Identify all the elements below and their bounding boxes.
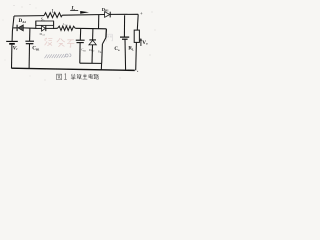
wire left vertical from top rail to source xyxy=(12,16,14,41)
caption char 效 xyxy=(77,74,82,79)
caption char 等 xyxy=(71,74,76,80)
wire capacitor C_o tap from top rail xyxy=(123,15,125,36)
capacitor C_B1 bottom plate xyxy=(77,42,84,44)
wire left node to diode D_A2 xyxy=(13,27,17,29)
svg-text:DA2: DA2 xyxy=(19,18,27,24)
caption char 图 xyxy=(57,74,62,79)
wire capacitor C_A1 tap xyxy=(29,28,31,41)
wire junction drop from top rail to node B xyxy=(98,15,100,29)
battery V_i short plate xyxy=(9,43,15,45)
watermark faint gray hanzi right xyxy=(107,34,113,41)
watermark gray script "www" squiggle xyxy=(45,54,71,58)
svg-text:Vi: Vi xyxy=(13,45,18,51)
wire top rail left segment xyxy=(14,15,44,17)
wire cell A to inductor L_B1 xyxy=(54,27,58,29)
wire C_o to bottom rail xyxy=(124,39,127,70)
wire bottom rail xyxy=(12,68,135,70)
inductor L xyxy=(44,13,62,18)
svg-text:LB1: LB1 xyxy=(63,22,69,27)
diode D_A1 triangle xyxy=(42,26,46,31)
svg-text:SA: SA xyxy=(41,18,45,23)
svg-text:CB1: CB1 xyxy=(32,46,40,52)
diode D_B2 triangle xyxy=(89,40,96,45)
wire L_B1 to node B xyxy=(75,27,106,30)
scan noise speckles xyxy=(3,4,156,80)
ink dot after bottom rail xyxy=(137,71,138,72)
Io underline xyxy=(70,10,78,12)
diode D_A1 cathode bar xyxy=(45,26,47,31)
wire node B down to switch S_B xyxy=(105,29,108,38)
wire right edge down to R_L xyxy=(136,14,139,30)
wire battery to bottom rail xyxy=(11,45,13,69)
caption char 路 xyxy=(94,74,99,79)
wire C_B1 to cell B bus xyxy=(79,43,81,64)
inductor L_B1 xyxy=(58,26,76,30)
capacitor C_B1 top plate xyxy=(76,39,85,41)
watermark red hanzi character 3 xyxy=(67,40,74,48)
wire cell B bus to bottom rail xyxy=(100,63,102,70)
wire C_A1 to bottom rail xyxy=(28,44,30,69)
node bar cell A left xyxy=(35,21,37,29)
capacitor C_o bottom plate xyxy=(122,38,128,40)
switch S_B blade xyxy=(103,38,106,44)
svg-text:SB: SB xyxy=(98,49,102,54)
diode D_B1 cathode bar xyxy=(109,12,111,18)
svg-text:Co: Co xyxy=(114,47,120,52)
capacitor C_A1 bottom plate xyxy=(26,43,34,45)
wire cell A lower right xyxy=(46,27,54,29)
wire cell B bus xyxy=(80,62,102,64)
diode D_A2 cathode bar xyxy=(16,25,18,31)
caption char 主 xyxy=(83,74,88,79)
svg-text:L: L xyxy=(52,9,55,14)
wire diode D_B2 tap xyxy=(92,29,94,40)
V_o arrow head xyxy=(140,38,142,41)
svg-text:DB2: DB2 xyxy=(89,48,95,53)
caption char 电 xyxy=(89,74,93,78)
diode D_B1 triangle xyxy=(105,12,110,18)
switch S_A box xyxy=(36,21,54,25)
wire D_B2 to cell B bus xyxy=(91,45,94,64)
node bar cell A right xyxy=(53,21,55,29)
resistor R_L xyxy=(134,30,139,42)
watermark red hanzi character 2 xyxy=(57,38,65,46)
wire R_L to bottom rail xyxy=(135,42,138,70)
wire cell A lower left xyxy=(36,27,42,29)
current direction arrow on top rail xyxy=(80,11,89,14)
wire top rail right segment xyxy=(110,13,138,15)
svg-text:DA1: DA1 xyxy=(40,32,46,37)
svg-text:+: + xyxy=(140,11,143,16)
svg-text:RL: RL xyxy=(128,47,134,52)
caption numeral 1 xyxy=(64,74,66,80)
svg-text:CB1: CB1 xyxy=(81,48,87,53)
capacitor C_A1 top plate xyxy=(25,40,34,42)
wire top rail middle segment xyxy=(62,14,104,17)
svg-text:Vo: Vo xyxy=(142,40,148,46)
capacitor C_o top plate xyxy=(120,36,129,38)
wire S_B to cell B bus xyxy=(101,44,104,64)
battery V_i long plate xyxy=(6,40,18,42)
wire capacitor C_B1 tap xyxy=(79,29,81,40)
wire D_A2 to cell A node xyxy=(23,27,36,29)
diode D_B2 cathode bar xyxy=(89,39,96,41)
V_o arrow shaft xyxy=(140,40,142,46)
watermark red hanzi character 1 xyxy=(45,38,53,46)
diode D_A2 triangle xyxy=(18,25,23,31)
